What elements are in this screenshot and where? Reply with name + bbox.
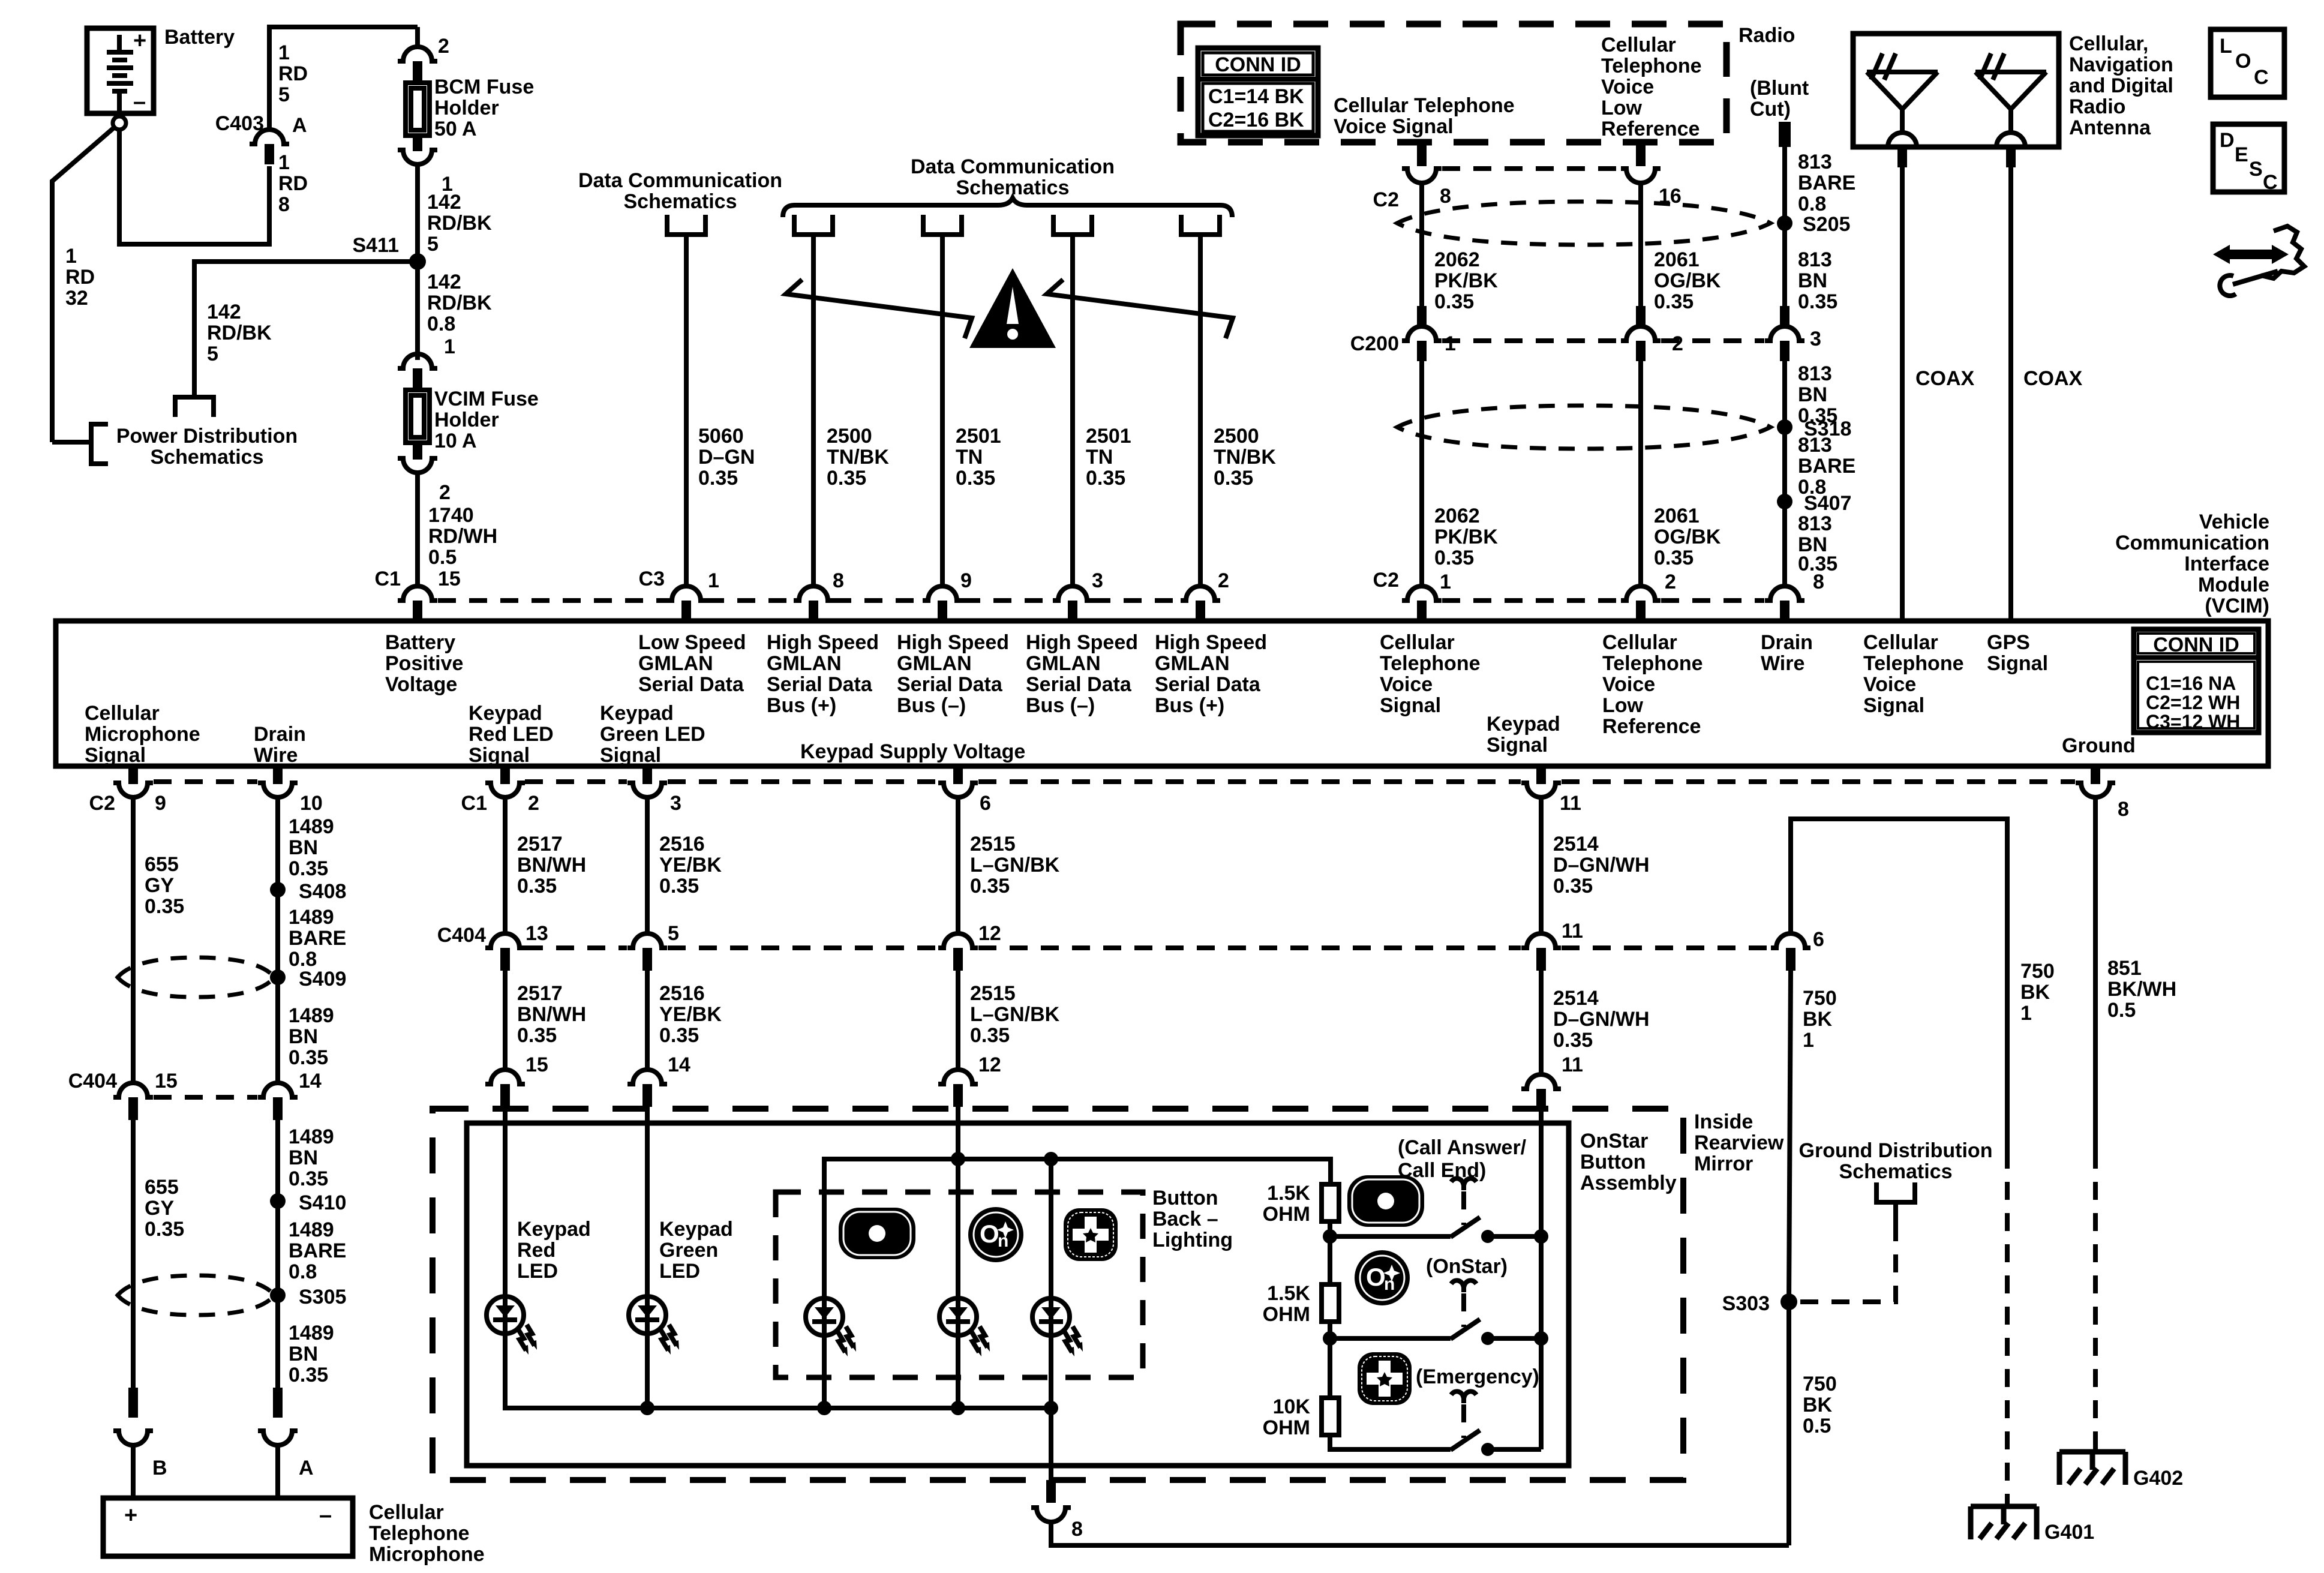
svg-text:A: A	[292, 114, 307, 137]
svg-text:C1: C1	[375, 568, 401, 590]
wire keypad red LED signal lower	[503, 971, 508, 1070]
svg-text:S411: S411	[352, 234, 399, 257]
svg-text:0.35: 0.35	[970, 875, 1010, 897]
svg-text:Reference: Reference	[1601, 118, 1700, 140]
svg-text:Holder: Holder	[434, 97, 499, 119]
svg-text:Power Distribution: Power Distribution	[116, 425, 298, 448]
svg-text:C3=12 WH: C3=12 WH	[2146, 711, 2240, 733]
svg-text:Battery: Battery	[385, 631, 455, 654]
svg-text:2500: 2500	[1214, 425, 1259, 448]
svg-text:1489: 1489	[289, 1322, 334, 1344]
node S303	[1780, 1293, 1797, 1310]
svg-text:C2: C2	[1373, 188, 1399, 211]
wire low speed GMLAN serial data	[684, 235, 689, 586]
svg-text:0.5: 0.5	[1803, 1415, 1831, 1437]
svg-text:Red LED: Red LED	[469, 723, 554, 746]
svg-text:Bus (+): Bus (+)	[1155, 694, 1224, 717]
svg-text:0.35: 0.35	[698, 467, 738, 490]
svg-text:Serial Data: Serial Data	[767, 673, 873, 696]
svg-text:BARE: BARE	[289, 927, 346, 950]
svg-text:2: 2	[439, 481, 451, 504]
svg-text:Reference: Reference	[1602, 715, 1701, 738]
svg-text:GMLAN: GMLAN	[767, 652, 842, 675]
svg-text:–: –	[319, 1503, 332, 1528]
svg-text:(Blunt: (Blunt	[1750, 77, 1809, 100]
shield ellipse mic lower	[118, 1275, 275, 1315]
svg-text:Battery: Battery	[164, 26, 235, 49]
svg-text:1489: 1489	[289, 1218, 334, 1241]
svg-text:6: 6	[980, 792, 991, 815]
svg-text:1: 1	[1445, 332, 1456, 355]
svg-text:Inside: Inside	[1694, 1110, 1753, 1133]
svg-text:COAX: COAX	[2023, 367, 2083, 390]
switch onstar	[1330, 1319, 1541, 1345]
wire VCIM fuse to module pin C1-15	[415, 473, 420, 586]
svg-text:(VCIM): (VCIM)	[2205, 595, 2269, 617]
connector C404 pin 12	[938, 933, 978, 948]
svg-text:2: 2	[1218, 569, 1229, 592]
svg-text:BN/WH: BN/WH	[517, 854, 586, 876]
svg-text:0.35: 0.35	[289, 1167, 328, 1190]
svg-text:D–GN/WH: D–GN/WH	[1553, 854, 1650, 876]
svg-text:Bus (+): Bus (+)	[767, 694, 836, 717]
svg-text:Interface: Interface	[2184, 553, 2269, 575]
svg-text:Voltage: Voltage	[385, 673, 457, 696]
svg-text:3: 3	[1810, 328, 1821, 350]
wire high speed GMLAN bus + (pin 2)	[1198, 235, 1203, 586]
off-page bracket Power Distribution	[91, 424, 108, 464]
svg-text:Keypad: Keypad	[659, 1218, 733, 1241]
svg-text:Serial Data: Serial Data	[1155, 673, 1261, 696]
svg-text:Voice Signal: Voice Signal	[1334, 115, 1454, 138]
svg-text:High Speed: High Speed	[1026, 631, 1138, 654]
svg-text:D: D	[2220, 129, 2235, 152]
legend LOC box	[2211, 29, 2284, 97]
svg-text:3: 3	[1092, 569, 1103, 592]
svg-text:0.35: 0.35	[289, 857, 328, 880]
svg-text:1.5K: 1.5K	[1267, 1282, 1310, 1305]
switch actuator emergency	[1451, 1391, 1476, 1403]
wire keypad green LED signal lower	[645, 971, 650, 1070]
svg-text:D–GN: D–GN	[698, 446, 755, 469]
svg-text:B: B	[152, 1457, 167, 1479]
svg-text:Signal: Signal	[1987, 652, 2048, 675]
wire backlight feed line	[824, 1159, 1331, 1408]
wire cellular microphone signal upper	[131, 797, 136, 1083]
onstar button assembly box	[467, 1123, 1569, 1466]
svg-text:BARE: BARE	[289, 1239, 346, 1262]
wire battery terminal down and right to C403	[119, 27, 418, 244]
wire 2061 lower	[1638, 355, 1643, 586]
svg-text:TN/BK: TN/BK	[1214, 446, 1276, 469]
resistor R1 1.5K	[1322, 1159, 1339, 1236]
svg-text:BK: BK	[1803, 1008, 1833, 1031]
dashed box inside rearview mirror	[433, 1109, 1683, 1480]
svg-text:Holder: Holder	[434, 409, 499, 431]
svg-text:OHM: OHM	[1263, 1203, 1310, 1226]
svg-text:Keypad: Keypad	[1487, 713, 1560, 736]
svg-text:RD/BK: RD/BK	[207, 322, 272, 344]
svg-text:Navigation: Navigation	[2069, 53, 2173, 76]
svg-text:2517: 2517	[517, 982, 563, 1005]
node S411	[409, 253, 426, 270]
svg-text:Data Communication: Data Communication	[911, 155, 1115, 178]
connector module pin 3	[1053, 586, 1092, 601]
svg-text:2501: 2501	[1086, 425, 1131, 448]
svg-text:Signal: Signal	[85, 744, 146, 767]
svg-text:BK/WH: BK/WH	[2107, 978, 2176, 1001]
svg-text:9: 9	[960, 569, 972, 592]
svg-text:2062: 2062	[1434, 505, 1480, 527]
svg-text:GY: GY	[145, 1197, 174, 1220]
svg-text:Cellular,: Cellular,	[2069, 32, 2148, 55]
dashed wire ground distribution to S303	[1797, 1223, 1896, 1302]
svg-text:BARE: BARE	[1798, 172, 1855, 194]
connector keypad pin 14	[627, 1070, 667, 1084]
wire 2062 lower	[1419, 355, 1424, 586]
svg-text:1: 1	[708, 569, 719, 592]
svg-text:TN/BK: TN/BK	[827, 446, 889, 469]
svg-text:0.35: 0.35	[1654, 290, 1694, 313]
svg-text:Low: Low	[1601, 97, 1643, 119]
wire drain wire upper	[275, 797, 280, 1083]
wire coax 1	[1900, 167, 1905, 622]
connector module pin 8 ground	[2091, 766, 2100, 784]
svg-text:Red: Red	[517, 1239, 556, 1262]
connector module pin C1-15	[398, 586, 437, 601]
icon emergency button	[1358, 1352, 1412, 1405]
svg-text:COAX: COAX	[1915, 367, 1975, 390]
node S408	[270, 882, 286, 897]
svg-text:Rearview: Rearview	[1694, 1131, 1784, 1154]
svg-text:RD/WH: RD/WH	[428, 525, 497, 548]
svg-text:Cut): Cut)	[1750, 98, 1791, 121]
svg-text:5: 5	[427, 233, 439, 256]
svg-text:OHM: OHM	[1263, 1303, 1310, 1326]
connector C200 pin 2	[1636, 306, 1646, 328]
wire LED cathode bus	[505, 1334, 1051, 1408]
svg-text:C3: C3	[639, 568, 665, 590]
legend DESC box	[2213, 124, 2284, 192]
wire keypad signal rail into box	[1539, 1112, 1544, 1236]
svg-text:Keypad: Keypad	[517, 1218, 591, 1241]
svg-text:Telephone: Telephone	[369, 1522, 470, 1545]
svg-text:2061: 2061	[1654, 505, 1700, 527]
connector keypad pin 15	[485, 1070, 525, 1084]
connector module pin C2-9	[128, 766, 138, 784]
connector C404 pin 13	[485, 933, 525, 948]
svg-text:OHM: OHM	[1263, 1416, 1310, 1439]
svg-text:0.8: 0.8	[427, 313, 455, 335]
svg-text:14: 14	[668, 1053, 690, 1076]
connector keypad pin 12	[938, 1070, 978, 1084]
connector module pin C1-2	[500, 766, 510, 784]
antenna cellular	[1867, 53, 1938, 135]
svg-text:VCIM Fuse: VCIM Fuse	[434, 388, 539, 410]
svg-text:0.35: 0.35	[145, 1218, 184, 1241]
svg-text:0.35: 0.35	[1434, 547, 1474, 569]
svg-text:BN: BN	[289, 1343, 318, 1365]
svg-text:Telephone: Telephone	[1380, 652, 1481, 675]
svg-text:Ground Distribution: Ground Distribution	[1799, 1139, 1993, 1162]
svg-text:C1=14 BK: C1=14 BK	[1208, 85, 1304, 108]
svg-text:9: 9	[155, 792, 166, 815]
svg-text:Cellular: Cellular	[85, 702, 160, 725]
svg-text:0.35: 0.35	[145, 895, 184, 918]
legend adjust icon (arrow and wrench)	[2213, 226, 2304, 296]
svg-text:RD/BK: RD/BK	[427, 212, 492, 235]
svg-text:5060: 5060	[698, 425, 744, 448]
wire keypad signal upper	[1539, 797, 1544, 933]
dashed box button back-lighting	[776, 1192, 1143, 1377]
warning triangle	[969, 268, 1056, 348]
svg-text:2062: 2062	[1434, 248, 1480, 271]
svg-text:E: E	[2235, 143, 2248, 166]
svg-text:0.5: 0.5	[428, 546, 457, 569]
svg-text:750: 750	[2020, 960, 2055, 983]
svg-text:Telephone: Telephone	[1602, 652, 1703, 675]
svg-text:6: 6	[1813, 928, 1824, 951]
wire S411 branch to power distribution fork	[194, 262, 418, 396]
svg-text:Signal: Signal	[1863, 694, 1924, 717]
dashed wire to G401	[2005, 1151, 2010, 1506]
wire high speed GMLAN bus - (pin 3)	[1070, 235, 1075, 586]
svg-text:Bus (–): Bus (–)	[897, 694, 966, 717]
svg-text:–: –	[133, 89, 146, 115]
svg-text:YE/BK: YE/BK	[659, 854, 722, 876]
svg-text:8: 8	[1813, 571, 1824, 593]
shield ellipse mic upper	[118, 957, 275, 997]
node junction supply/backlight	[951, 1152, 965, 1166]
svg-text:1489: 1489	[289, 1004, 334, 1027]
svg-text:LED: LED	[659, 1260, 700, 1283]
svg-text:GY: GY	[145, 874, 174, 897]
diode keypad red LED	[487, 1296, 537, 1355]
icon onstar button	[1355, 1250, 1410, 1305]
connector C404 pin 5	[627, 933, 667, 948]
connector keypad pin 8	[1046, 1480, 1056, 1503]
svg-text:YE/BK: YE/BK	[659, 1003, 722, 1026]
svg-text:Drain: Drain	[254, 723, 306, 746]
svg-text:10: 10	[300, 792, 323, 815]
connector C404 pin 15	[113, 1083, 153, 1097]
svg-text:O: O	[2235, 50, 2251, 73]
svg-text:Vehicle: Vehicle	[2199, 511, 2269, 533]
connector radio pin 16	[1636, 142, 1646, 166]
svg-text:0.8: 0.8	[289, 1260, 317, 1283]
svg-text:Bus (–): Bus (–)	[1026, 694, 1095, 717]
svg-text:1489: 1489	[289, 1125, 334, 1148]
svg-text:BCM Fuse: BCM Fuse	[434, 76, 534, 98]
wire keypad signal lower	[1539, 971, 1544, 1074]
connector microphone terminal A	[273, 1388, 283, 1418]
svg-text:15: 15	[438, 568, 461, 590]
svg-text:2501: 2501	[956, 425, 1001, 448]
svg-text:Telephone: Telephone	[1601, 55, 1702, 77]
svg-text:0.35: 0.35	[1553, 875, 1593, 897]
svg-text:2500: 2500	[827, 425, 872, 448]
svg-text:Serial Data: Serial Data	[1026, 673, 1132, 696]
connector C404 pin 6	[1771, 933, 1810, 948]
connector module pin 11	[1536, 766, 1546, 784]
node battery negative terminal	[113, 116, 126, 130]
ground G402	[2059, 1452, 2125, 1485]
svg-text:12: 12	[978, 1053, 1001, 1076]
svg-text:BN: BN	[289, 1146, 318, 1169]
off-page fork high speed GMLAN 3	[1053, 215, 1092, 235]
svg-text:S410: S410	[299, 1191, 346, 1214]
svg-text:S: S	[2249, 158, 2263, 181]
svg-text:Lighting: Lighting	[1152, 1229, 1233, 1251]
svg-text:GMLAN: GMLAN	[638, 652, 713, 675]
svg-text:Schematics: Schematics	[624, 190, 737, 213]
diode backlight LED 2	[939, 1298, 990, 1356]
svg-text:Wire: Wire	[1761, 652, 1804, 675]
svg-text:Voice: Voice	[1863, 673, 1916, 696]
svg-text:BN: BN	[289, 1025, 318, 1048]
svg-text:C2=12 WH: C2=12 WH	[2146, 692, 2240, 713]
svg-text:Button: Button	[1580, 1151, 1646, 1173]
svg-text:Drain: Drain	[1761, 631, 1813, 654]
node junction bus bl2	[951, 1401, 965, 1415]
svg-text:Green LED: Green LED	[600, 723, 705, 746]
connector module pin 10	[273, 766, 283, 784]
svg-text:142: 142	[427, 191, 461, 214]
svg-text:C200: C200	[1350, 332, 1399, 355]
dashed wire to G402	[2093, 1151, 2098, 1452]
connector mirror pin 11	[1521, 1074, 1561, 1089]
svg-text:813: 813	[1798, 151, 1832, 173]
svg-text:BK: BK	[1803, 1394, 1833, 1416]
svg-text:Schematics: Schematics	[1839, 1160, 1953, 1183]
svg-text:11: 11	[1560, 792, 1581, 815]
node S205	[1777, 215, 1792, 231]
svg-text:GMLAN: GMLAN	[897, 652, 972, 675]
svg-text:15: 15	[155, 1070, 178, 1092]
svg-text:1.5K: 1.5K	[1267, 1182, 1310, 1205]
svg-text:2516: 2516	[659, 833, 705, 855]
svg-text:L: L	[2220, 35, 2232, 58]
wire R1 to R2	[1328, 1236, 1332, 1284]
svg-text:RD: RD	[278, 172, 308, 195]
off-page fork low speed GMLAN	[667, 215, 705, 235]
dashed connector line C404 keypad	[525, 945, 1770, 950]
wire R3 to emergency switch row	[1330, 1435, 1451, 1449]
svg-text:C: C	[2263, 171, 2278, 194]
wire keypad red LED signal upper	[503, 797, 508, 933]
icon onstar button backlight	[968, 1207, 1023, 1262]
wire drain 813 lower	[1782, 355, 1787, 586]
svg-text:Cellular: Cellular	[1601, 34, 1676, 56]
connector microphone terminal B	[128, 1388, 138, 1418]
svg-text:32: 32	[65, 287, 88, 310]
connector BCM fuse holder bottom	[413, 136, 422, 151]
resistor R2 1.5K	[1322, 1284, 1339, 1322]
switch call answer	[1330, 1217, 1541, 1243]
twisted pair slash left	[786, 280, 972, 338]
svg-text:RD: RD	[278, 62, 308, 85]
svg-text:851: 851	[2107, 957, 2142, 980]
svg-text:G401: G401	[2044, 1521, 2094, 1544]
svg-text:0.35: 0.35	[1214, 467, 1253, 490]
svg-text:S407: S407	[1804, 492, 1851, 515]
wire BCM fuse to S411	[415, 164, 420, 360]
dashed connector line module top left group	[438, 598, 1181, 603]
svg-text:8: 8	[278, 193, 290, 216]
off-page fork power distribution	[175, 397, 214, 417]
svg-text:GMLAN: GMLAN	[1026, 652, 1101, 675]
svg-text:C404: C404	[437, 924, 486, 947]
svg-text:G402: G402	[2133, 1467, 2183, 1490]
svg-text:Serial Data: Serial Data	[638, 673, 744, 696]
svg-text:Cellular: Cellular	[1863, 631, 1938, 654]
svg-text:C403: C403	[215, 112, 264, 135]
module CONN ID table	[2134, 629, 2259, 733]
svg-text:0.35: 0.35	[517, 875, 557, 897]
wire mirror harness loop	[1791, 819, 2007, 1151]
svg-text:0.35: 0.35	[289, 1364, 328, 1386]
svg-text:1489: 1489	[289, 815, 334, 838]
svg-text:2515: 2515	[970, 982, 1016, 1005]
svg-text:High Speed: High Speed	[1155, 631, 1267, 654]
fuse BCM 50A	[406, 83, 430, 136]
svg-text:Cellular: Cellular	[369, 1501, 444, 1524]
svg-text:1: 1	[1803, 1029, 1814, 1052]
svg-text:2: 2	[1672, 332, 1683, 355]
microphone box	[103, 1498, 353, 1556]
node junction R1/R2	[1323, 1229, 1337, 1244]
svg-text:Voice: Voice	[1602, 673, 1655, 696]
connector module pin C3-1	[666, 586, 706, 601]
node junction R2/R3	[1323, 1331, 1337, 1346]
svg-text:Positive: Positive	[385, 652, 463, 675]
connector C404 pin 11	[1521, 933, 1561, 948]
svg-text:2: 2	[438, 35, 449, 58]
node junction rail onstar	[1534, 1331, 1548, 1346]
wire ground 8 lead	[2093, 797, 2098, 1151]
svg-text:0.35: 0.35	[1434, 290, 1474, 313]
svg-text:813: 813	[1798, 512, 1832, 535]
svg-text:TN: TN	[1086, 446, 1113, 469]
dashed connector line C404 mic	[154, 1095, 257, 1100]
dashed connector line module bottom C1	[525, 779, 2075, 784]
svg-text:Microphone: Microphone	[85, 723, 200, 746]
connector C404 pin 14	[258, 1083, 298, 1097]
ground G401	[1971, 1506, 2037, 1539]
svg-text:Signal: Signal	[1487, 734, 1548, 757]
svg-text:Voice: Voice	[1601, 76, 1654, 98]
svg-text:Assembly: Assembly	[1580, 1172, 1677, 1194]
svg-text:L–GN/BK: L–GN/BK	[970, 854, 1060, 876]
svg-text:C: C	[2254, 66, 2269, 89]
antenna assembly box	[1853, 34, 2059, 147]
svg-text:10K: 10K	[1273, 1395, 1311, 1418]
twisted pair slash right	[1047, 280, 1233, 338]
node S410	[270, 1193, 286, 1209]
wire drain wire lower	[275, 1120, 280, 1388]
wire green LED branch	[645, 1107, 650, 1408]
svg-text:S305: S305	[299, 1286, 346, 1308]
svg-text:0.35: 0.35	[659, 875, 699, 897]
wire battery terminal to RD32 run	[52, 127, 115, 442]
svg-text:Radio: Radio	[1739, 24, 1795, 47]
svg-text:0.35: 0.35	[956, 467, 995, 490]
svg-text:(Emergency): (Emergency)	[1416, 1365, 1539, 1388]
connector module pin 2	[1181, 586, 1220, 601]
svg-text:1489: 1489	[289, 906, 334, 929]
svg-text:11: 11	[1562, 920, 1583, 942]
svg-text:0.35: 0.35	[289, 1046, 328, 1069]
